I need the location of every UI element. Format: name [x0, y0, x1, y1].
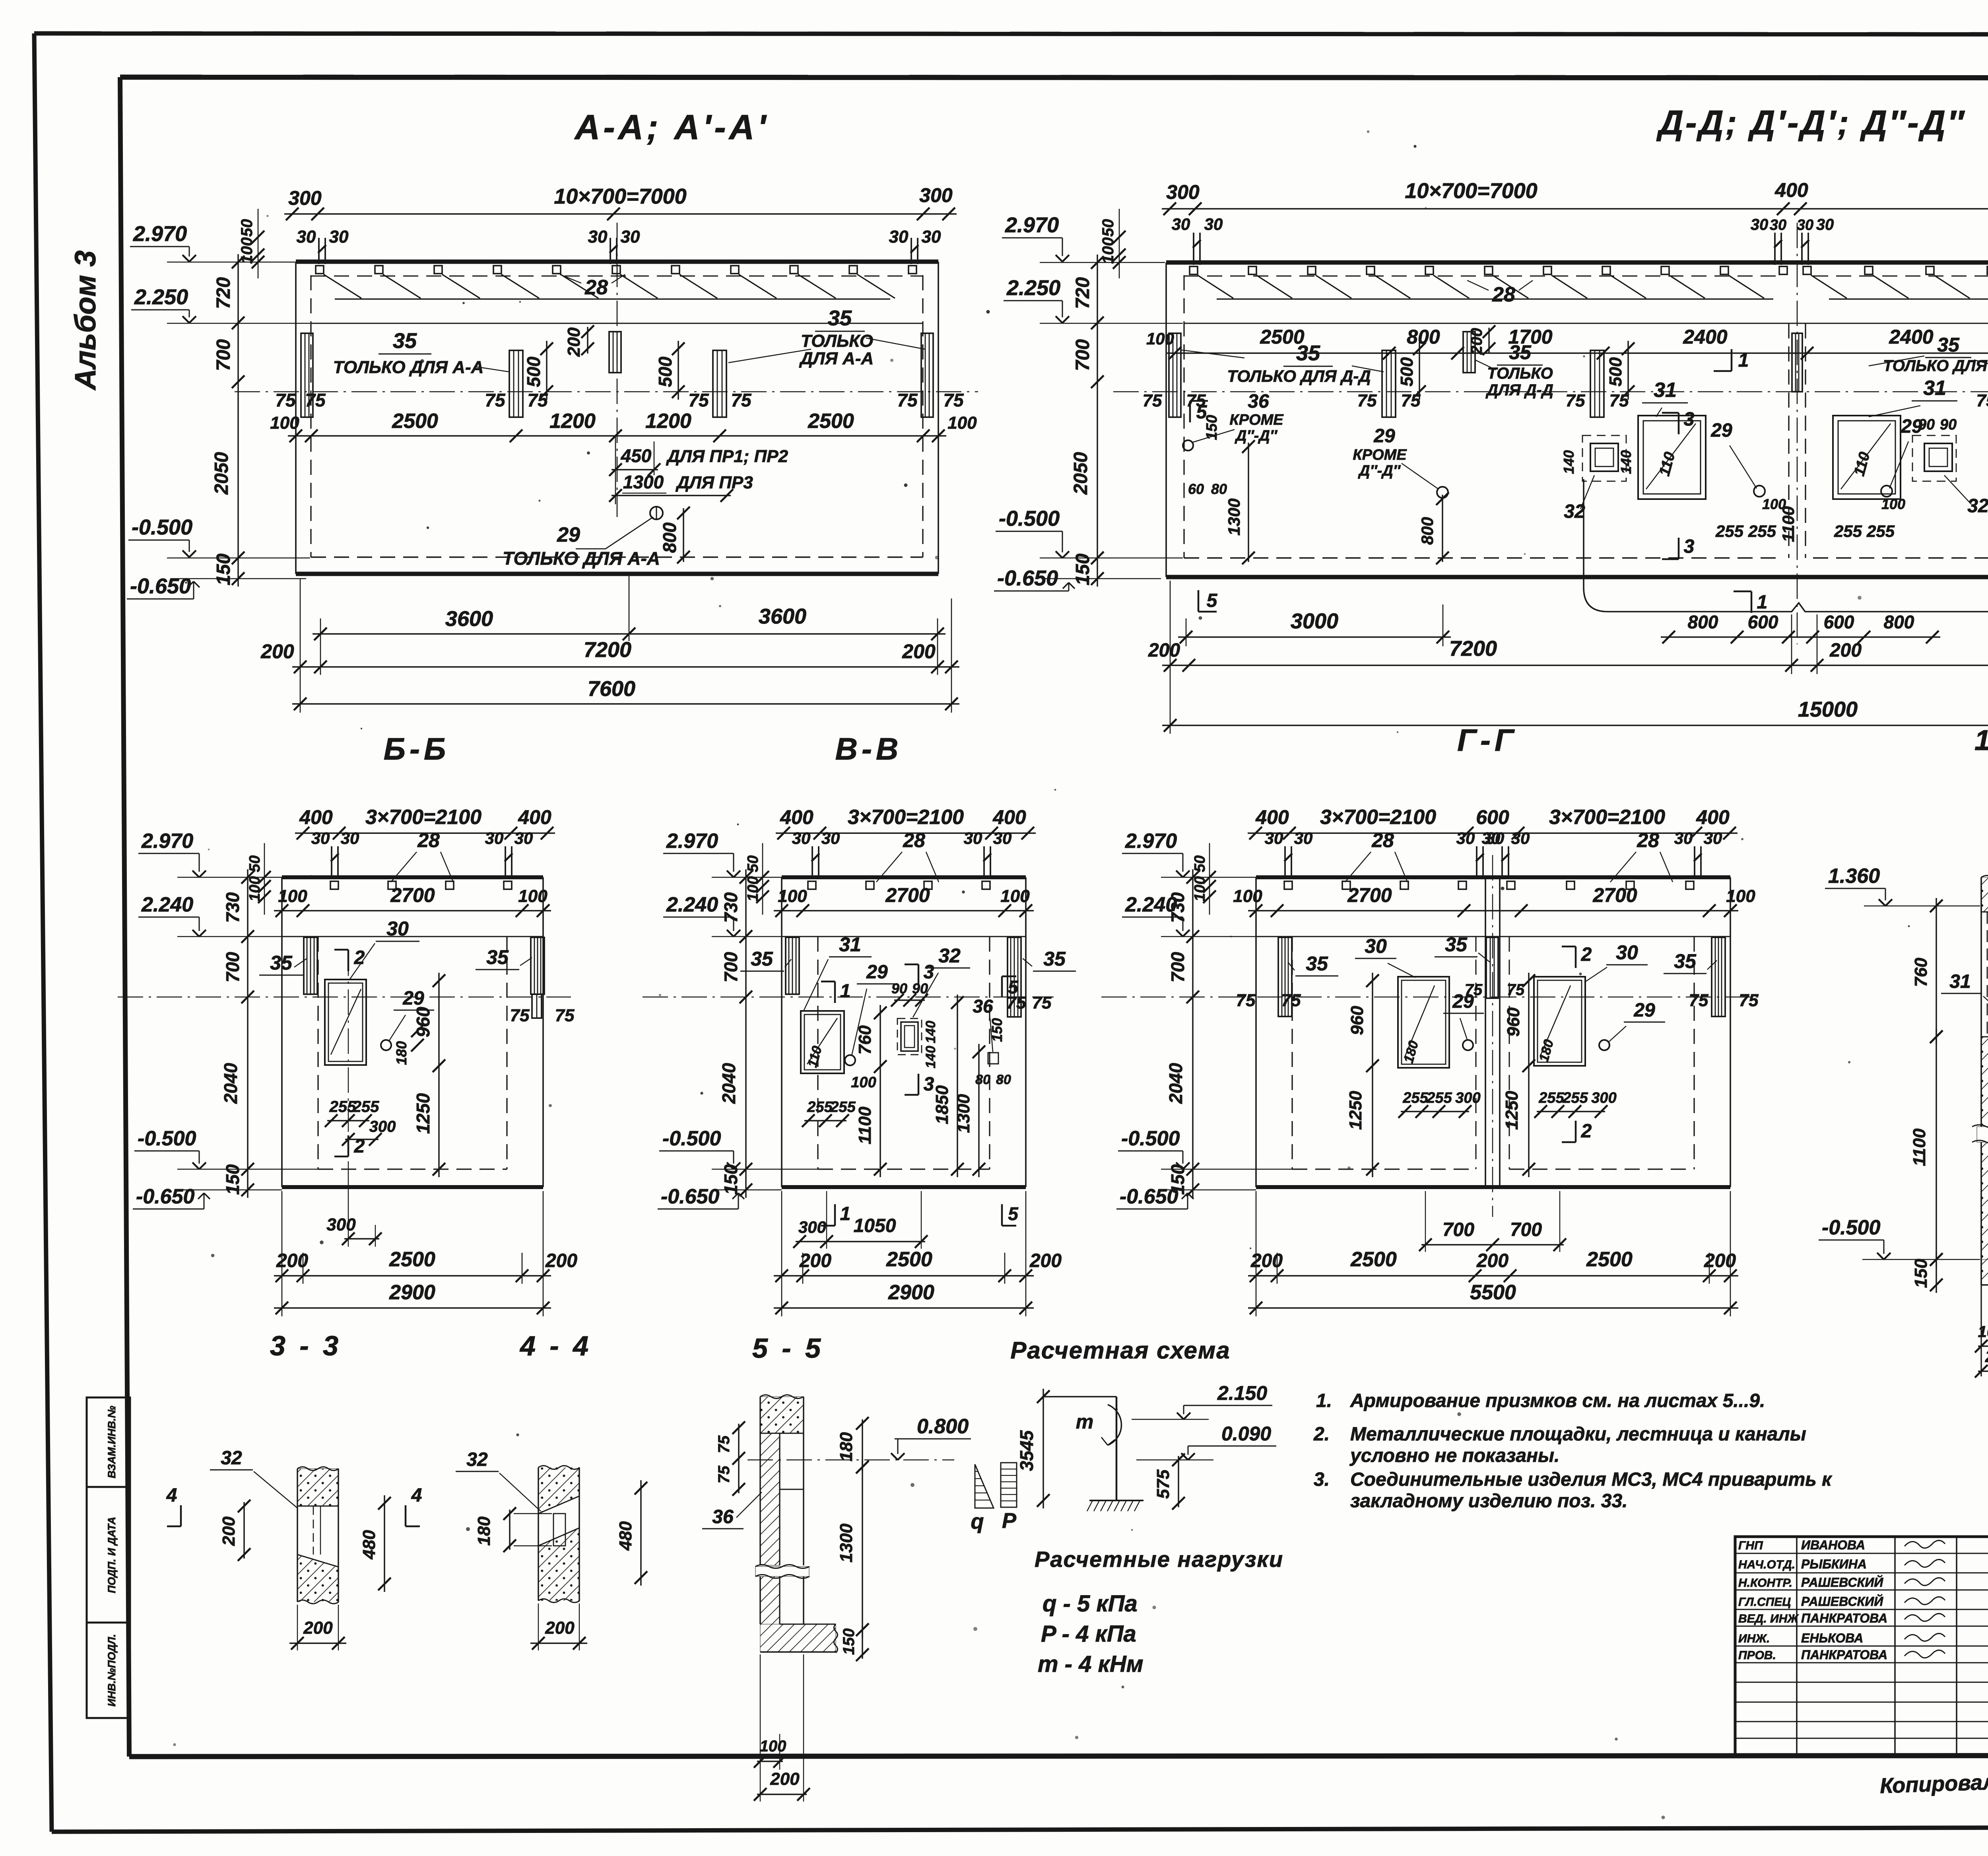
Г-Г dims 960 1250 left chamber [1372, 973, 1373, 1177]
svg-text:75: 75 [485, 390, 506, 410]
svg-text:100: 100 [1099, 237, 1117, 264]
svg-text:КРОМЕ: КРОМЕ [1353, 447, 1407, 463]
svg-text:Армирование призмков см. на ли: Армирование призмков см. на листах 5...9… [1350, 1390, 1765, 1411]
Б-Б item 35 bar right with label [531, 937, 544, 994]
svg-text:75: 75 [731, 390, 752, 410]
svg-text:35: 35 [828, 306, 852, 330]
svg-text:2.250: 2.250 [134, 285, 188, 309]
svg-text:200: 200 [303, 1618, 333, 1638]
svg-text:75: 75 [1143, 391, 1162, 410]
svg-text:50: 50 [1192, 855, 1208, 872]
Г-Г bottom dim 200-2500-200-2500-200 [1248, 1275, 1738, 1276]
view В-В embedded plates 30-30 [812, 846, 813, 878]
svg-text:2500: 2500 [1586, 1248, 1633, 1271]
Б-Б bottom dim 300 [344, 1238, 379, 1239]
Д-Д embedded plates 30-30 middle pair [1774, 233, 1776, 265]
view Г-Г ceiling soffit line [1256, 936, 1730, 937]
svg-text:75: 75 [510, 1006, 530, 1025]
svg-text:400: 400 [518, 806, 551, 828]
svg-text:-0.500: -0.500 [1121, 1127, 1180, 1150]
svg-text:3: 3 [1684, 536, 1695, 557]
Д-Д item 32 left square [1582, 435, 1626, 481]
4-4 dim 480 [640, 1480, 641, 1586]
svg-text:100: 100 [851, 1074, 876, 1091]
svg-text:1250: 1250 [413, 1093, 433, 1134]
5-5 dims 75 75 [738, 1424, 739, 1493]
Г-Г bottom dim 5500 [1248, 1307, 1738, 1308]
svg-text:2700: 2700 [390, 884, 435, 906]
svg-text:3: 3 [1684, 409, 1695, 430]
svg-text:31: 31 [1923, 377, 1946, 400]
view Б-Б mini chain 100 50 [264, 843, 265, 915]
В-В dims 1850 1300 [957, 995, 958, 1177]
svg-text:700: 700 [222, 952, 243, 982]
svg-text:75: 75 [1609, 391, 1629, 410]
Д-Д left dim chain [1097, 255, 1098, 587]
svg-text:2.970: 2.970 [141, 830, 193, 853]
Г-Г opening 30 right [1534, 977, 1585, 1066]
svg-text:30: 30 [889, 227, 909, 247]
А-А floor dashed line [311, 556, 923, 558]
svg-text:75: 75 [1032, 993, 1052, 1013]
svg-text:29: 29 [1710, 420, 1732, 441]
Г-Г section mark 2 [1575, 946, 1577, 968]
Г-Г bottom dim 700-700 [1421, 1244, 1564, 1245]
svg-text:150: 150 [222, 1164, 243, 1195]
А-А embedded plates 30-30 left [318, 238, 320, 264]
view Г-Г anchor squares [1284, 881, 1292, 889]
3-3 dim 480 [384, 1495, 385, 1592]
svg-text:P: P [1002, 1509, 1017, 1533]
svg-text:180: 180 [1401, 1039, 1421, 1065]
svg-text:30: 30 [1204, 215, 1223, 233]
svg-text:2.240: 2.240 [666, 893, 718, 916]
svg-text:1250: 1250 [1346, 1091, 1365, 1130]
svg-text:960: 960 [1347, 1006, 1367, 1035]
svg-text:255: 255 [830, 1099, 856, 1116]
svg-text:30: 30 [386, 917, 409, 940]
title block left rows [1735, 1553, 1988, 1554]
svg-text:180: 180 [1536, 1038, 1557, 1064]
4-4 middle neck [553, 1514, 565, 1546]
А-А item 29 circle with leader [650, 507, 663, 519]
svg-text:760: 760 [1911, 958, 1931, 987]
А-А center vertical axis [617, 223, 618, 517]
svg-text:2.: 2. [1313, 1424, 1330, 1445]
В-В section mark 5 [1001, 976, 1003, 997]
svg-text:ПАНКРАТОВА: ПАНКРАТОВА [1801, 1648, 1887, 1662]
svg-text:Д″-Д″: Д″-Д″ [1358, 463, 1401, 479]
svg-text:150: 150 [1204, 415, 1220, 440]
svg-text:75: 75 [1689, 991, 1708, 1010]
svg-text:30: 30 [1770, 217, 1786, 233]
Д-Д item 36 left [1183, 440, 1193, 451]
svg-text:30: 30 [1704, 829, 1722, 847]
Г-Г dims 255-255-300 [1401, 1111, 1469, 1112]
svg-text:28: 28 [903, 829, 925, 851]
Б-Б dim 255-255 and 300 [327, 1120, 369, 1121]
Д-Д floor dashed line [1184, 557, 1781, 558]
svg-text:Д-Д; Д′-Д′; Д″-Д″: Д-Д; Д′-Д′; Д″-Д″ [1656, 104, 1966, 142]
view Г-Г mini chain 100 50 [1209, 843, 1210, 915]
svg-text:75: 75 [897, 390, 918, 410]
svg-text:110: 110 [1851, 450, 1873, 478]
В-В opening item 31 trapezoid [801, 1011, 844, 1073]
svg-text:10×700=7000: 10×700=7000 [1405, 179, 1537, 203]
schema column with top bar [1116, 1397, 1118, 1500]
svg-text:29: 29 [1633, 1000, 1655, 1021]
view Г-Г walls [1255, 877, 1257, 1187]
Б-Б section mark 2 top [348, 950, 349, 971]
Д-Д anchor squares row right span [1803, 266, 1811, 274]
svg-text:90: 90 [1918, 416, 1935, 433]
В-В section mark 1 bottom [834, 1204, 836, 1226]
scan speckles [891, 359, 893, 362]
svg-text:50: 50 [238, 219, 256, 237]
svg-text:30: 30 [1616, 941, 1638, 964]
svg-text:300: 300 [1166, 181, 1200, 203]
svg-text:35: 35 [393, 329, 417, 353]
schema dim 3545 [1043, 1389, 1044, 1508]
svg-text:-0.500: -0.500 [662, 1127, 721, 1150]
left margin box ВЗАМ.ИНВ.№ [87, 1397, 130, 1487]
Д-Д pit outline кроме Д-Д [1584, 479, 1988, 612]
4-4 bottom hatched block [538, 1528, 579, 1601]
Д-Д bottom dim row 3000 left [1178, 636, 1451, 637]
svg-text:35: 35 [1674, 950, 1697, 972]
1-1 wall below floor [1980, 1285, 1982, 1376]
svg-text:2.970: 2.970 [666, 830, 718, 853]
svg-text:15000: 15000 [1798, 698, 1858, 721]
svg-text:2040: 2040 [718, 1063, 739, 1104]
svg-text:Металлические площадки, лестни: Металлические площадки, лестница и канал… [1350, 1424, 1806, 1445]
svg-text:35: 35 [751, 948, 773, 970]
svg-text:29: 29 [557, 523, 580, 546]
svg-text:700: 700 [1442, 1219, 1474, 1240]
svg-text:140: 140 [1561, 450, 1577, 474]
Д-Д opening 31 right trapezoid [1833, 416, 1901, 499]
svg-text:В-В: В-В [835, 731, 903, 766]
svg-text:80: 80 [975, 1072, 990, 1087]
svg-text:200: 200 [902, 640, 936, 663]
А-А dim 500 left [546, 341, 547, 400]
svg-text:ДЛЯ ПР3: ДЛЯ ПР3 [675, 473, 753, 492]
svg-text:90: 90 [1940, 416, 1957, 433]
svg-text:730: 730 [720, 892, 741, 923]
svg-text:29: 29 [402, 988, 424, 1009]
А-А bottom dim chain 100-2500-1200-1200-2500-100 [288, 435, 946, 436]
А-А dim 800 vertical [683, 508, 684, 562]
svg-text:100: 100 [1192, 876, 1208, 901]
В-В bottom dim 2900 [774, 1307, 1034, 1308]
svg-text:75: 75 [715, 1435, 733, 1453]
1-1 dim 760 [1936, 898, 1937, 1045]
view Б-Б walls [281, 877, 283, 1187]
svg-text:3600: 3600 [759, 604, 806, 628]
svg-text:28: 28 [1492, 283, 1515, 306]
svg-text:2500: 2500 [1350, 1248, 1397, 1271]
svg-text:75: 75 [688, 390, 709, 410]
Д-Д item 35 bars [1169, 333, 1181, 417]
svg-text:700: 700 [1072, 339, 1093, 371]
svg-text:50: 50 [1099, 219, 1117, 237]
svg-text:-0.650: -0.650 [136, 1185, 195, 1208]
А-А top inner dashed line [311, 276, 923, 277]
Д-Д bottom dim row 800-600-600-800 [1661, 636, 1940, 637]
Д-Д bottom dim row 15000 [1162, 725, 1988, 726]
svg-text:35: 35 [486, 946, 509, 968]
Д-Д upper dim chain 2500-800-1700-2400 [1167, 352, 1988, 354]
5-5 dim 1300 [862, 1459, 863, 1638]
svg-text:1 - 1: 1 - 1 [1974, 725, 1988, 756]
view Б-Б horizontal axis [118, 997, 571, 997]
svg-text:2700: 2700 [1347, 884, 1392, 906]
svg-text:30: 30 [1482, 829, 1501, 847]
svg-text:255: 255 [1562, 1090, 1588, 1106]
svg-text:255: 255 [1715, 522, 1744, 540]
svg-text:3.: 3. [1314, 1469, 1330, 1490]
svg-text:35: 35 [270, 952, 293, 974]
svg-text:80: 80 [996, 1072, 1011, 1087]
view Г-Г top dimension line [1248, 832, 1738, 834]
svg-text:2.250: 2.250 [1006, 276, 1060, 300]
svg-text:30: 30 [341, 829, 359, 847]
Г-Г opening 30 left [1398, 977, 1449, 1068]
svg-text:100: 100 [1881, 496, 1905, 512]
svg-text:31: 31 [839, 933, 861, 956]
А-А roof slab top thick line [296, 260, 938, 264]
svg-text:400: 400 [1255, 806, 1289, 828]
1-1 panel 31 zone [1987, 912, 1988, 1037]
svg-text:ГЛ.СПЕЦ: ГЛ.СПЕЦ [1738, 1596, 1791, 1609]
inner drawing frame [120, 77, 1988, 78]
Д-Д item 29 circles at openings [1754, 486, 1765, 497]
svg-text:2050: 2050 [211, 452, 232, 495]
svg-text:1100: 1100 [1910, 1128, 1929, 1166]
svg-text:1.360: 1.360 [1828, 865, 1880, 888]
svg-text:100: 100 [745, 876, 761, 901]
5-5 dim 180 [862, 1419, 863, 1471]
А-А dim 200 center bar [587, 327, 588, 354]
5-5 wavy break band [755, 1566, 809, 1576]
svg-text:1.: 1. [1316, 1390, 1332, 1411]
svg-text:150: 150 [989, 1018, 1005, 1042]
svg-text:РЫБКИНА: РЫБКИНА [1801, 1557, 1867, 1571]
svg-text:75: 75 [715, 1465, 733, 1483]
Д-Д section marks 3-3 [1678, 413, 1680, 434]
svg-text:200: 200 [545, 1250, 577, 1271]
svg-text:2040: 2040 [220, 1063, 241, 1104]
svg-text:200: 200 [1029, 1250, 1062, 1271]
svg-text:1050: 1050 [854, 1215, 896, 1236]
svg-text:35: 35 [1509, 341, 1532, 363]
svg-text:300: 300 [1591, 1090, 1616, 1106]
svg-text:700: 700 [1510, 1219, 1542, 1240]
svg-text:3: 3 [924, 962, 934, 983]
svg-text:450: 450 [621, 445, 652, 466]
svg-text:7200: 7200 [584, 638, 631, 662]
view В-В top slab thick line [782, 875, 1026, 879]
svg-text:36: 36 [712, 1506, 734, 1528]
svg-text:29: 29 [866, 962, 888, 983]
schema dim 575 [1178, 1456, 1179, 1507]
svg-text:100: 100 [1978, 1323, 1988, 1341]
svg-text:200: 200 [1250, 1250, 1283, 1271]
view Б-Б floor dashed line [318, 1168, 507, 1170]
svg-text:200: 200 [799, 1250, 831, 1271]
Д-Д dims 500 and 200 [1419, 341, 1420, 400]
svg-text:28: 28 [584, 276, 608, 299]
svg-text:Копировал: Кз-: Копировал: Кз- [1879, 1769, 1988, 1798]
5-5 lower part [760, 1576, 780, 1624]
svg-text:300: 300 [1455, 1090, 1480, 1106]
svg-text:1300: 1300 [837, 1524, 856, 1563]
svg-text:1300: 1300 [954, 1094, 973, 1133]
svg-text:-0.500: -0.500 [138, 1127, 196, 1150]
А-А top dimension line 10x700=7000 [284, 213, 957, 214]
svg-text:2: 2 [354, 947, 365, 968]
Д-Д left wall [1165, 262, 1167, 577]
svg-text:1200: 1200 [549, 410, 596, 433]
svg-text:-0.500: -0.500 [999, 507, 1060, 531]
А-А bottom extension lines [300, 579, 301, 713]
А-А anchor squares row [316, 266, 324, 274]
svg-text:300: 300 [288, 187, 322, 209]
svg-text:75: 75 [1236, 991, 1256, 1010]
svg-text:1250: 1250 [1502, 1091, 1522, 1130]
Д-Д item 32 right square [1912, 435, 1956, 481]
Д-Д roof panels hatch strips [1198, 275, 1233, 298]
svg-text:28: 28 [1637, 829, 1659, 851]
Г-Г item 29 circles [1463, 1040, 1473, 1050]
В-В item 35 bar right with label [1008, 937, 1021, 1017]
svg-text:q: q [971, 1510, 984, 1533]
А-А ceiling soffit line [311, 323, 923, 324]
svg-text:35: 35 [1296, 341, 1320, 365]
svg-text:4: 4 [166, 1485, 177, 1506]
svg-text:30: 30 [1816, 216, 1834, 233]
svg-text:150: 150 [1072, 554, 1093, 585]
svg-text:30: 30 [821, 829, 840, 847]
3-3 bottom hatched block [297, 1555, 338, 1602]
svg-text:Расчетная схема: Расчетная схема [1010, 1337, 1230, 1364]
svg-text:30: 30 [1751, 216, 1769, 233]
svg-text:36: 36 [1248, 391, 1269, 412]
view В-В walls [781, 877, 782, 1187]
view В-В floor dashed line [818, 1168, 990, 1170]
svg-text:730: 730 [1167, 892, 1188, 923]
5-5 top hatched block [760, 1397, 804, 1433]
А-А item 35 bar on left wall [301, 333, 313, 417]
svg-text:100: 100 [1762, 496, 1786, 512]
svg-text:1300: 1300 [623, 472, 664, 492]
svg-text:300: 300 [798, 1218, 826, 1236]
svg-text:100: 100 [760, 1737, 786, 1755]
svg-text:5: 5 [1008, 1203, 1019, 1224]
3-3 section marks 4-4 [180, 1505, 182, 1526]
svg-text:31: 31 [1949, 971, 1971, 992]
svg-text:60: 60 [1188, 481, 1204, 497]
А-А dim 500 right [678, 341, 679, 400]
svg-text:30: 30 [1797, 217, 1813, 233]
svg-text:300: 300 [919, 184, 953, 206]
svg-text:700: 700 [720, 952, 741, 982]
svg-text:29: 29 [1373, 426, 1395, 447]
svg-text:2.970: 2.970 [1005, 213, 1059, 237]
Б-Б bottom dim 2900 [274, 1307, 551, 1308]
svg-text:100: 100 [247, 876, 263, 901]
В-В item 35 bar left with label [786, 937, 799, 994]
svg-text:1300: 1300 [1225, 498, 1243, 535]
view Б-Б top dimension line [295, 832, 555, 834]
svg-text:255: 255 [1834, 522, 1862, 540]
svg-text:2500: 2500 [392, 410, 438, 433]
view Г-Г floor dashed line [1292, 1168, 1476, 1170]
svg-text:75: 75 [1739, 991, 1759, 1010]
svg-text:200: 200 [1148, 640, 1180, 661]
Б-Б item 29 circle with label [381, 1040, 391, 1050]
svg-text:140: 140 [923, 1021, 938, 1044]
svg-text:ТОЛЬКО: ТОЛЬКО [1487, 365, 1553, 382]
svg-text:400: 400 [1696, 806, 1730, 828]
Д-Д bottom extension lines [1170, 581, 1171, 734]
svg-text:2700: 2700 [1592, 884, 1637, 906]
А-А left wall [295, 262, 297, 574]
svg-text:2: 2 [1581, 944, 1592, 965]
schema base hatch [1089, 1500, 1143, 1501]
svg-text:30: 30 [1511, 829, 1530, 847]
svg-text:400: 400 [1774, 179, 1808, 201]
svg-text:480: 480 [359, 1530, 379, 1560]
view Г-Г dim row 100-2700-100 [1248, 910, 1738, 911]
А-А dim 450 для ПР1 ПР2 [615, 436, 616, 504]
svg-text:ТОЛЬКО ДЛЯ Д-Д: ТОЛЬКО ДЛЯ Д-Д [1883, 357, 1988, 375]
svg-text:255: 255 [1402, 1090, 1428, 1106]
svg-text:480: 480 [616, 1521, 635, 1551]
В-В section mark 1 top [834, 981, 836, 1003]
svg-text:110: 110 [805, 1044, 825, 1069]
svg-text:30: 30 [621, 227, 640, 247]
svg-text:ГНП: ГНП [1738, 1539, 1763, 1552]
Г-Г bottom extension lines [1256, 1191, 1257, 1316]
svg-text:75: 75 [1357, 391, 1377, 410]
view Г-Г horizontal axis [1101, 997, 1758, 997]
svg-text:100: 100 [238, 237, 256, 264]
svg-text:35: 35 [1937, 334, 1960, 356]
svg-text:200: 200 [770, 1769, 800, 1789]
svg-text:Д″-Д″: Д″-Д″ [1235, 428, 1278, 444]
1-1 lower concrete hatched [1981, 1037, 1988, 1259]
4-4 dim 200 bottom [538, 1603, 539, 1650]
view Г-Г bottom slab thick line [1256, 1185, 1730, 1189]
Д-Д center wall dashed lines [1788, 323, 1789, 558]
В-В bottom dim 200-2500-200 [774, 1275, 1034, 1276]
svg-text:255: 255 [1426, 1090, 1452, 1106]
view Б-Б ceiling soffit line [282, 936, 543, 937]
svg-text:200: 200 [1476, 1250, 1508, 1271]
svg-text:500: 500 [1397, 357, 1417, 387]
svg-text:28: 28 [1371, 829, 1394, 851]
svg-text:Г-Г: Г-Г [1457, 723, 1518, 758]
svg-text:110: 110 [1656, 450, 1678, 478]
svg-text:32: 32 [466, 1449, 488, 1470]
Б-Б bottom dim 200-2500-200 [274, 1275, 551, 1276]
svg-text:m: m [1076, 1411, 1093, 1433]
svg-text:ТОЛЬКО ДЛЯ А-А: ТОЛЬКО ДЛЯ А-А [333, 358, 484, 377]
5-5 dim 150 [862, 1626, 863, 1659]
svg-text:0.090: 0.090 [1221, 1423, 1271, 1445]
svg-text:30: 30 [792, 829, 811, 847]
